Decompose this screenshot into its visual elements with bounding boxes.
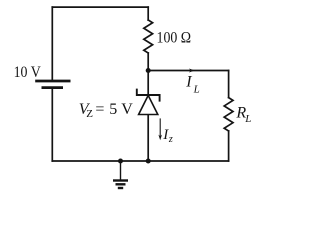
zener diode D1 triangle [139, 95, 158, 114]
current arrow Iz line [159, 118, 161, 137]
ground stub wire [120, 161, 122, 180]
svg-text:VZ=5V: VZ=5V [79, 101, 134, 120]
svg-text:10 V: 10 V [14, 64, 42, 81]
node junction dot at resistor/zener/load [146, 68, 151, 73]
wire right lower [228, 131, 230, 161]
node junction dot ground [118, 159, 123, 164]
wire resistor bottom lead to node [147, 53, 149, 71]
ground bar 1 [113, 179, 128, 181]
battery V1 short plate [42, 86, 64, 89]
wire horizontal to load [148, 70, 228, 72]
zener diode D1 cathode bar with bent ends [137, 90, 160, 101]
svg-text:IL: IL [185, 74, 199, 96]
svg-text:100 Ω: 100 Ω [157, 30, 192, 47]
battery V1 long plate [35, 80, 70, 83]
wire left lower [51, 88, 53, 161]
resistor R1 100 ohm zigzag [144, 20, 153, 53]
wire bottom [52, 160, 228, 162]
wire node to zener [147, 71, 149, 96]
svg-text:RL: RL [235, 105, 251, 125]
wire right upper [228, 71, 230, 98]
wire zener to bottom [147, 115, 149, 161]
ground bar 2 [116, 183, 126, 185]
resistor RL zigzag [224, 98, 233, 131]
wire top [52, 6, 148, 8]
svg-text:Iz: Iz [162, 127, 173, 145]
wire left upper [51, 7, 53, 80]
ground bar 3 [118, 187, 123, 189]
current arrow IL on wire [189, 69, 195, 73]
node junction dot zener-bottom [146, 159, 151, 164]
current arrow Iz head [158, 135, 162, 141]
wire resistor top lead [147, 7, 149, 20]
